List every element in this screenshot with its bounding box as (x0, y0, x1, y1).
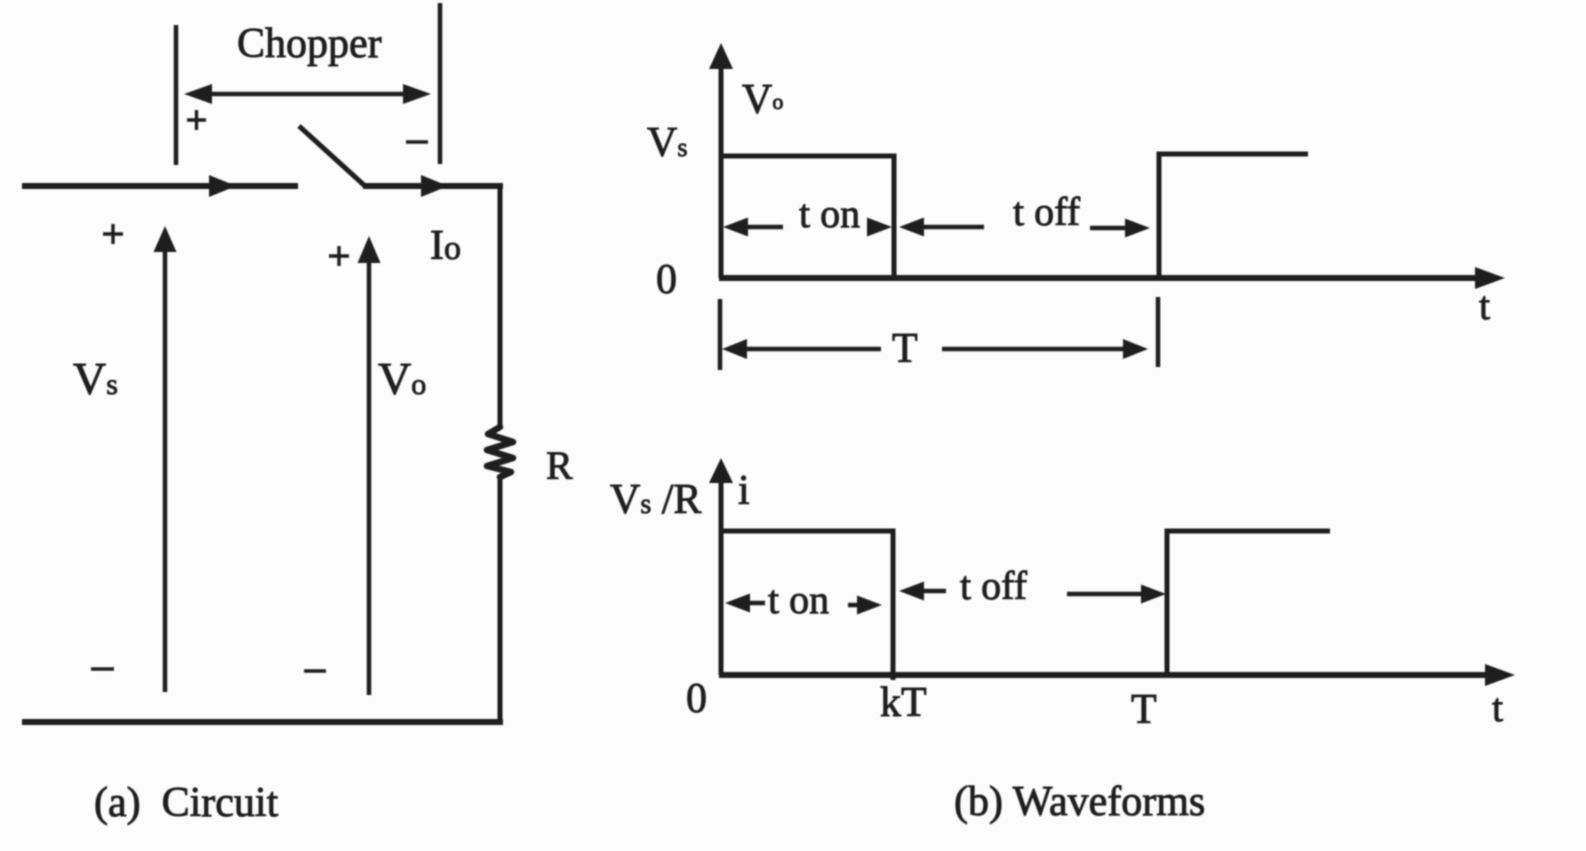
svg-text:T: T (1131, 687, 1157, 733)
waveform Vo pulse 1 (721, 156, 894, 278)
svg-text:t on: t on (768, 577, 829, 622)
waveform i pulse 1 (721, 531, 893, 680)
t off arrow right (bottom graph) (1067, 585, 1166, 604)
terminal bar left (chopper input) (174, 25, 179, 165)
wire (resistor to bottom corner) (498, 477, 503, 724)
switch S (chopper) (299, 126, 365, 186)
svg-text:t on: t on (799, 191, 860, 236)
polarity + (Vo top) (329, 246, 349, 266)
wire (switch to load corner) (363, 183, 503, 189)
axis t horizontal (top graph) (719, 267, 1505, 289)
t on arrow right (top graph) (867, 218, 892, 237)
svg-text:Vs /R: Vs /R (610, 477, 701, 523)
svg-text:(a) Circuit: (a) Circuit (94, 780, 279, 826)
polarity + (chopper input side) (187, 110, 206, 130)
svg-text:Io: Io (430, 223, 461, 269)
polarity + (Vs top) (103, 224, 123, 244)
svg-text:t off: t off (960, 563, 1028, 608)
resistor R (487, 427, 513, 477)
svg-text:Chopper: Chopper (237, 21, 382, 67)
polarity - (Vs bottom) (91, 667, 114, 671)
svg-text:t: t (1492, 685, 1503, 730)
waveform Vo pulse 2 (1159, 154, 1308, 278)
svg-text:T: T (892, 326, 918, 372)
t on arrow right (bottom graph) (848, 596, 882, 615)
wire (bottom return) (22, 719, 503, 725)
svg-text:t: t (1479, 283, 1490, 328)
t off arrow left (bottom graph) (899, 582, 946, 601)
period T arrow right (942, 339, 1148, 359)
svg-text:0: 0 (656, 257, 677, 303)
svg-text:t off: t off (1013, 189, 1081, 234)
waveform i pulse 2 (1167, 531, 1330, 675)
polarity - (chopper output side) (406, 140, 428, 144)
wire (right vertical, corner to resistor) (498, 183, 503, 428)
tick at T below axis (top graph) (1156, 297, 1161, 367)
chopper span arrow (double-headed) (184, 84, 431, 104)
terminal bar right (chopper output) (438, 3, 443, 164)
t off arrow right (top graph) (1090, 219, 1150, 238)
svg-text:kT: kT (880, 680, 927, 726)
axis i vertical (bottom graph) (709, 458, 733, 675)
svg-text:R: R (546, 443, 573, 488)
svg-text:0: 0 (686, 676, 707, 722)
voltage arrow Vo (358, 236, 381, 695)
period T arrow left (722, 339, 881, 359)
current arrowhead Io (421, 175, 448, 197)
svg-text:(b) Waveforms: (b) Waveforms (954, 779, 1205, 825)
t on arrow left (top graph) (723, 218, 783, 237)
voltage arrow Vs (154, 226, 177, 692)
polarity - (Vo bottom) (304, 669, 326, 673)
wire (source to switch) (22, 183, 298, 189)
svg-text:i: i (738, 468, 750, 514)
axis Vo vertical (top graph) (709, 43, 733, 278)
axis t horizontal (bottom graph) (719, 664, 1515, 686)
t off arrow left (top graph) (899, 218, 984, 237)
tick at origin below axis (top graph) (718, 299, 723, 370)
current arrowhead (input wire) (209, 175, 236, 197)
t on arrow left (bottom graph) (725, 594, 765, 613)
